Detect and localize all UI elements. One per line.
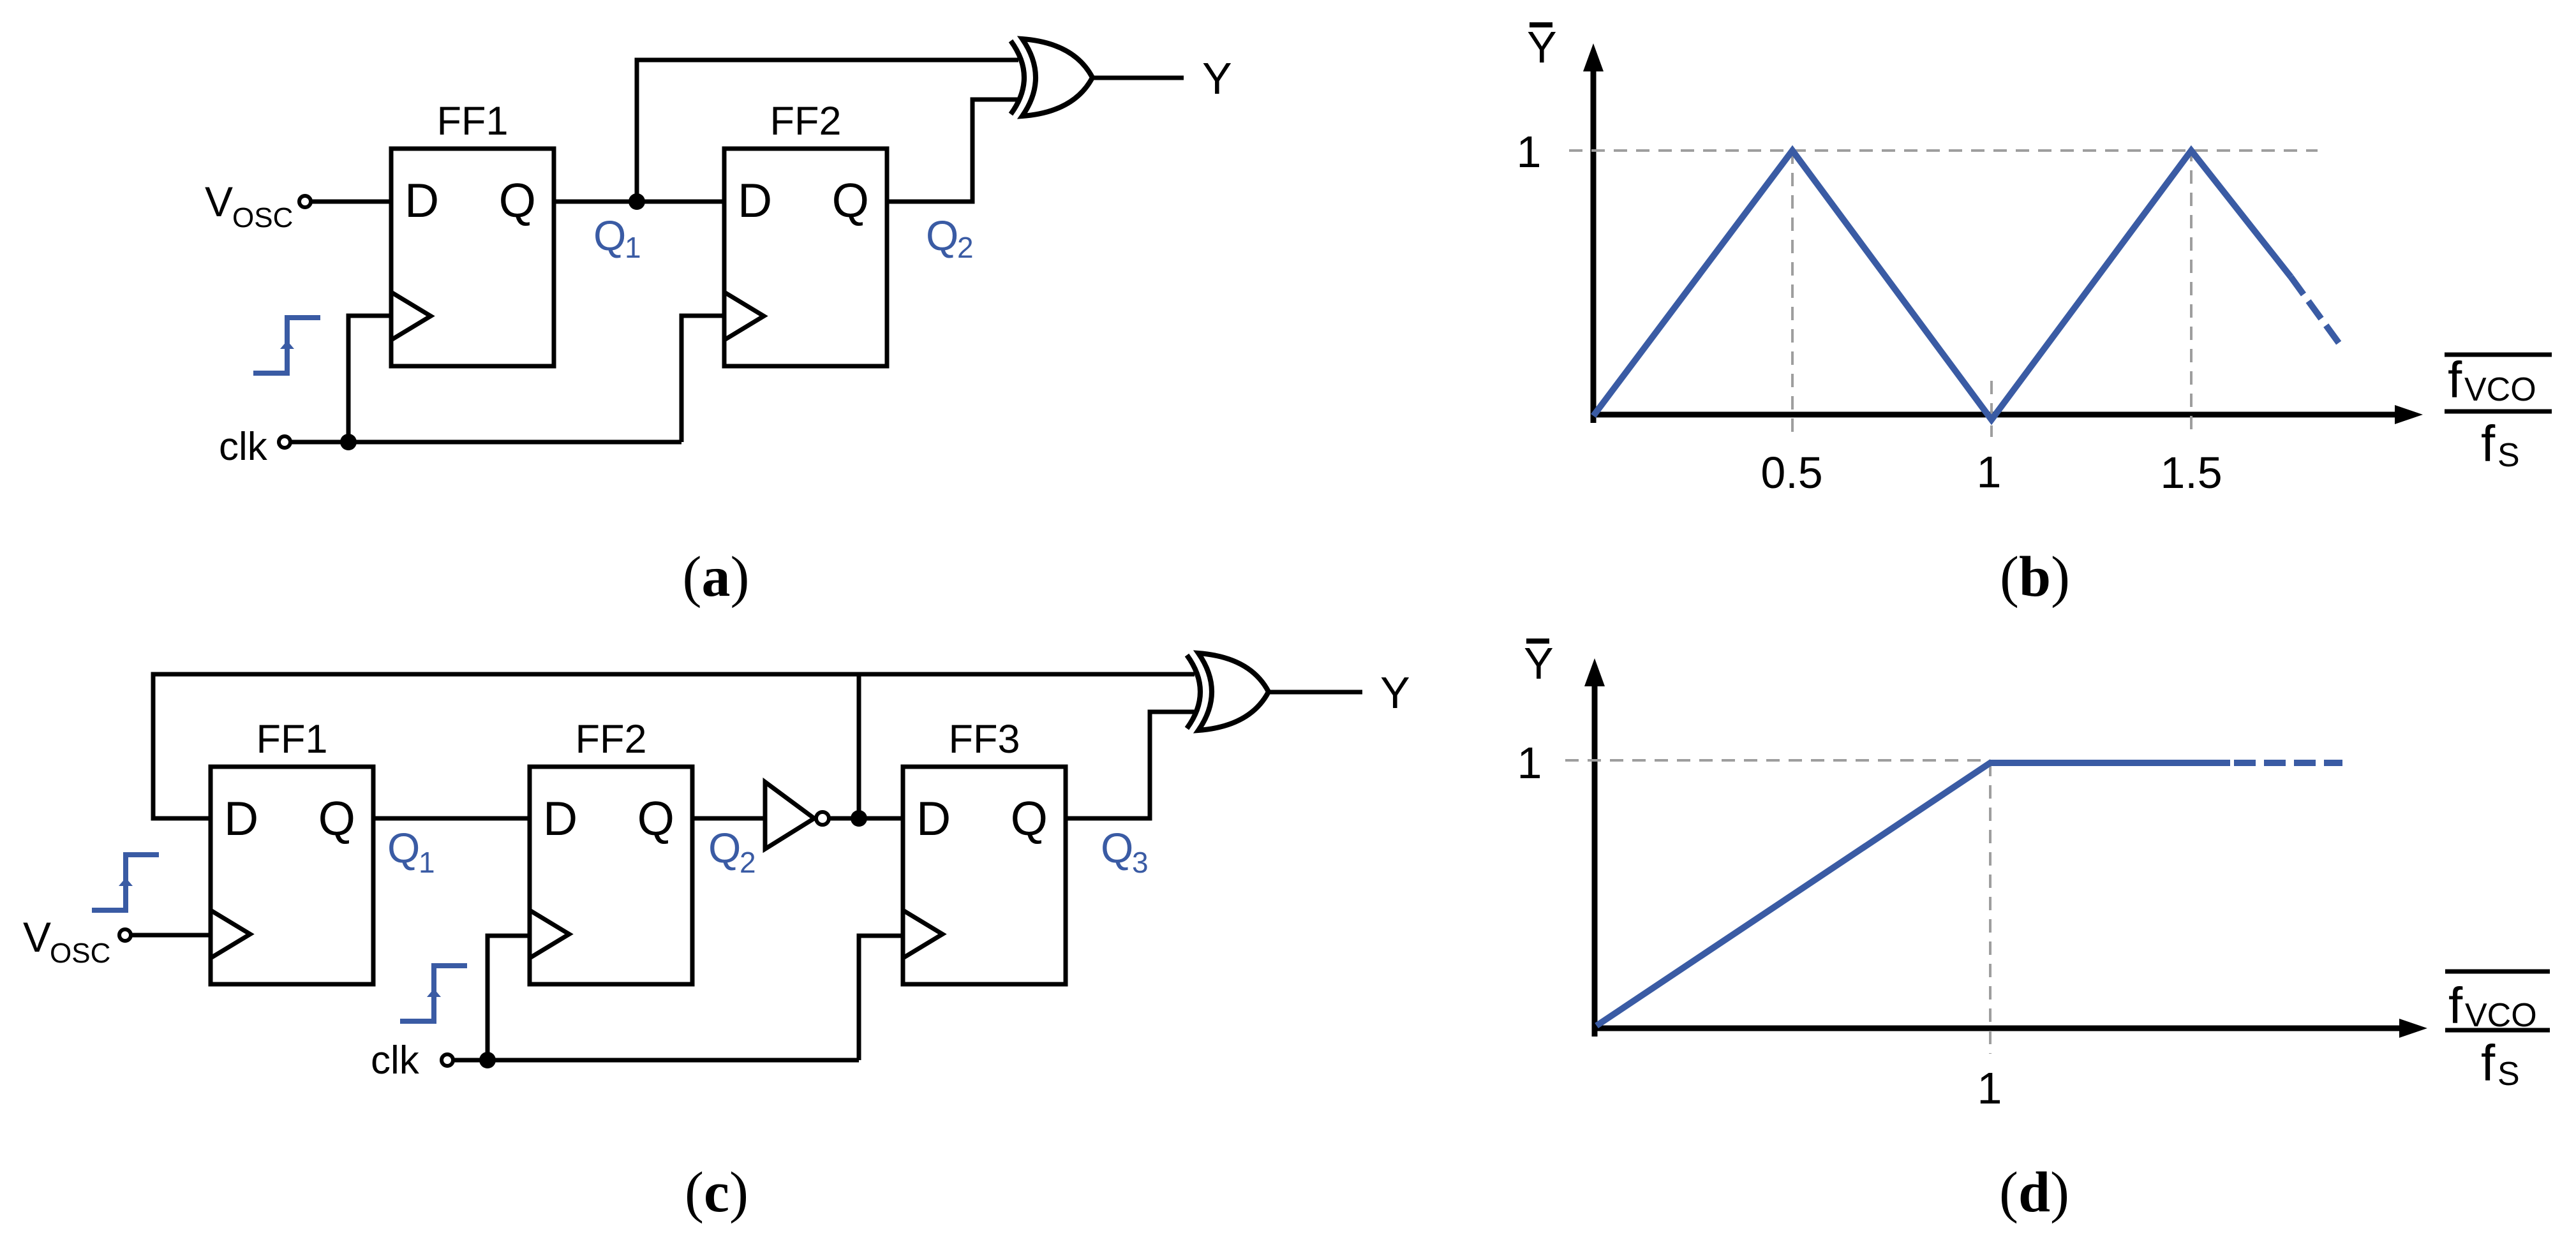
svg-text:OSC: OSC [232, 202, 293, 233]
svg-text:Q: Q [387, 824, 420, 871]
svg-text:V: V [23, 913, 51, 961]
svg-text:Q: Q [318, 792, 355, 845]
svg-text:D: D [916, 792, 951, 845]
svg-text:Y: Y [1202, 54, 1232, 103]
svg-text:S: S [2498, 437, 2520, 474]
svg-text:2: 2 [957, 231, 974, 264]
svg-text:clk: clk [219, 425, 268, 469]
svg-text:3: 3 [1132, 846, 1149, 879]
svg-text:1: 1 [1517, 738, 1542, 788]
svg-text:S: S [2498, 1056, 2520, 1093]
svg-text:f: f [2481, 1035, 2496, 1091]
svg-text:FF1: FF1 [436, 99, 508, 144]
svg-text:f: f [2448, 977, 2463, 1034]
svg-text:f: f [2481, 415, 2496, 472]
svg-text:(c): (c) [685, 1161, 748, 1224]
svg-text:Q: Q [1011, 792, 1048, 845]
svg-text:(b): (b) [2000, 545, 2070, 609]
svg-text:D: D [738, 173, 772, 227]
svg-text:Q: Q [832, 173, 869, 227]
svg-text:Q: Q [637, 792, 674, 845]
svg-text:V: V [205, 178, 233, 225]
svg-text:clk: clk [371, 1038, 420, 1082]
svg-text:(d): (d) [1999, 1161, 2069, 1224]
svg-text:FF3: FF3 [948, 717, 1020, 762]
svg-text:FF2: FF2 [770, 99, 841, 144]
svg-text:2: 2 [740, 846, 756, 879]
svg-text:Q: Q [593, 212, 626, 259]
svg-text:1: 1 [1977, 447, 2002, 497]
svg-text:Q: Q [708, 824, 741, 871]
svg-text:D: D [224, 792, 258, 845]
svg-text:VCO: VCO [2464, 371, 2536, 408]
svg-text:1.5: 1.5 [2160, 448, 2222, 498]
svg-text:1: 1 [1517, 127, 1542, 177]
svg-text:Q: Q [926, 212, 958, 259]
svg-text:FF2: FF2 [575, 717, 646, 762]
svg-text:Q: Q [1101, 824, 1133, 871]
svg-text:1: 1 [1977, 1063, 2002, 1113]
svg-text:FF1: FF1 [256, 717, 327, 762]
svg-text:D: D [405, 173, 439, 227]
svg-text:Y: Y [1380, 668, 1410, 718]
svg-text:0.5: 0.5 [1761, 448, 1822, 498]
svg-text:1: 1 [625, 231, 641, 264]
svg-text:D: D [543, 792, 577, 845]
svg-text:OSC: OSC [50, 938, 110, 969]
svg-text:Y: Y [1524, 638, 1554, 688]
svg-text:1: 1 [419, 846, 435, 879]
svg-text:f: f [2448, 351, 2462, 408]
svg-text:Q: Q [499, 173, 536, 227]
svg-text:Y: Y [1527, 22, 1557, 72]
svg-text:(a): (a) [683, 545, 750, 609]
